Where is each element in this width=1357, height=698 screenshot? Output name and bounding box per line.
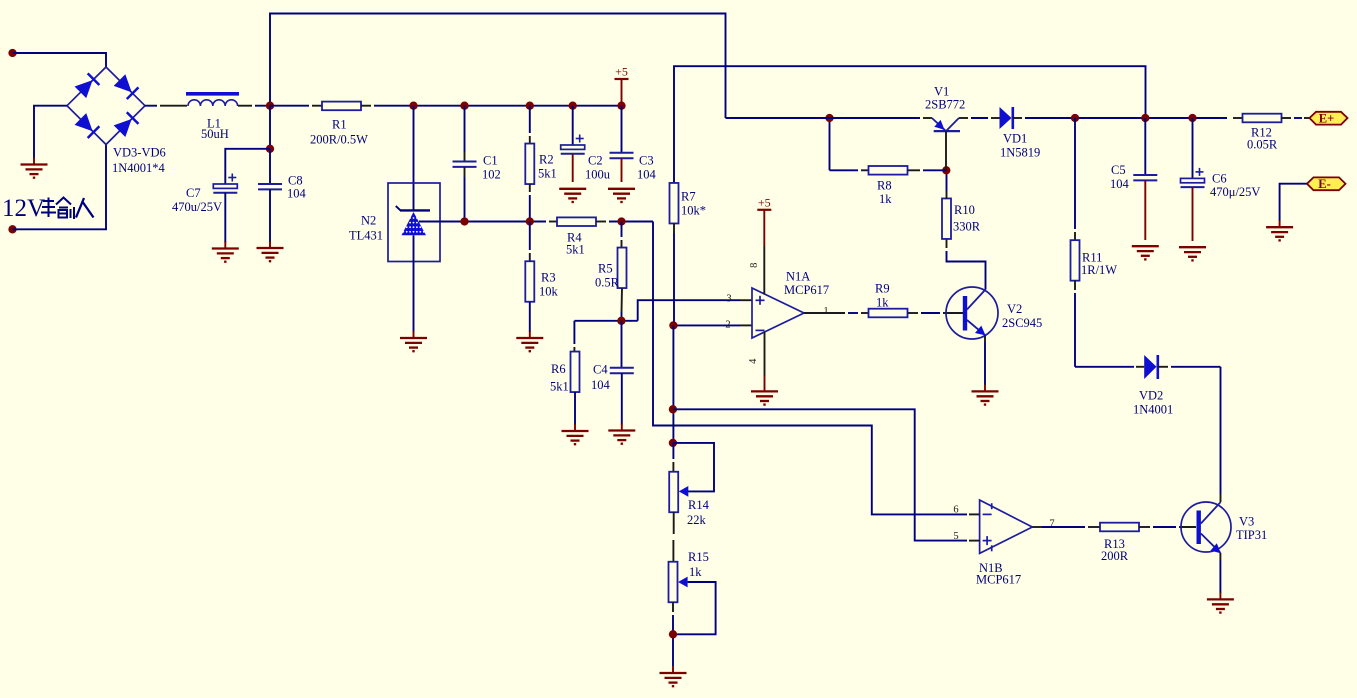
inductor L1 <box>186 92 239 96</box>
svg-text:R15: R15 <box>688 550 709 564</box>
svg-text:5k1: 5k1 <box>538 167 557 181</box>
wire input- to bridge bottom <box>13 145 107 230</box>
svg-text:MCP617: MCP617 <box>976 573 1021 587</box>
wire second top rail R7 to output rail <box>674 66 1146 183</box>
wire rail down to N2 cathode <box>413 106 415 210</box>
wire R1 to +5 rail <box>361 105 371 107</box>
junction rail at C2 <box>569 102 577 110</box>
junction main rail at L1 output <box>266 102 274 110</box>
op-amp N1B MCP617 <box>980 500 1033 553</box>
svg-text:R9: R9 <box>875 282 890 296</box>
wire VD1 to output rail <box>1013 117 1022 119</box>
ground at V3 <box>1219 592 1221 599</box>
node: 12V input positive terminal <box>8 49 16 57</box>
svg-text:1: 1 <box>823 306 828 317</box>
svg-text:104: 104 <box>1110 177 1130 191</box>
svg-text:1N5819: 1N5819 <box>1000 146 1040 160</box>
svg-text:R10: R10 <box>954 203 975 217</box>
svg-text:V1: V1 <box>934 85 949 99</box>
bridge diode bottom-right <box>114 112 139 137</box>
resistor R10 <box>942 198 951 239</box>
ground at C4 <box>621 424 623 431</box>
junction V1 emitter rail at R8 <box>825 114 833 122</box>
op-amp N1A MCP617 <box>752 288 804 338</box>
wire R12 to E+ port <box>1281 117 1291 119</box>
svg-text:R3: R3 <box>541 271 556 285</box>
junction R15 bottom / wiper <box>669 630 677 638</box>
capacitor C5 <box>1144 118 1146 175</box>
resistor R13 <box>1100 523 1139 532</box>
svg-text:1k: 1k <box>879 192 892 206</box>
svg-text:1R/1W: 1R/1W <box>1081 263 1117 277</box>
svg-text:C6: C6 <box>1212 172 1227 186</box>
bridge rectifier VD3-VD6 diamond <box>67 67 145 145</box>
svg-text:TL431: TL431 <box>349 229 383 243</box>
ground at C6 <box>1192 246 1194 248</box>
svg-text:2: 2 <box>725 320 730 331</box>
ground at V2 emitter <box>984 384 986 391</box>
ground at R3 <box>529 331 531 338</box>
junction output rail at C6 <box>1188 114 1196 122</box>
svg-text:4: 4 <box>748 358 759 364</box>
svg-text:1k: 1k <box>689 565 702 579</box>
svg-text:+5: +5 <box>615 65 628 79</box>
wire E- to ground <box>1280 184 1307 221</box>
resistor R8 <box>829 118 831 170</box>
wire input+ to bridge top <box>13 53 107 67</box>
node: 12V input negative terminal <box>8 225 16 233</box>
svg-text:C5: C5 <box>1111 163 1126 177</box>
wire R4 to R5 junction and down-corner <box>597 221 607 223</box>
svg-text:E-: E- <box>1318 177 1331 191</box>
svg-text:5k1: 5k1 <box>550 380 569 394</box>
junction V1 base / R8 / R10 <box>942 166 950 174</box>
transistor V1 2SB772 (PNP) <box>934 130 960 132</box>
capacitor C7 electrolytic <box>213 184 237 188</box>
svg-text:2SB772: 2SB772 <box>925 98 965 112</box>
bridge diode bottom-left <box>75 113 100 138</box>
svg-text:470u/25V: 470u/25V <box>172 200 222 214</box>
svg-text:8: 8 <box>749 263 760 268</box>
svg-text:104: 104 <box>637 168 657 182</box>
svg-text:104: 104 <box>591 378 611 392</box>
svg-text:50uH: 50uH <box>201 127 229 141</box>
port E- <box>1307 177 1346 190</box>
svg-text:VD1: VD1 <box>1003 132 1027 146</box>
wire C7 branch <box>225 149 270 184</box>
svg-text:470μ/25V: 470μ/25V <box>1210 185 1260 199</box>
ground at N1A pin 4 <box>764 375 766 391</box>
capacitor C1 <box>464 106 466 152</box>
ground at R6 <box>574 424 576 431</box>
ground at C3 <box>621 188 623 190</box>
svg-text:1N4001*4: 1N4001*4 <box>112 161 166 175</box>
svg-text:C2: C2 <box>588 154 603 168</box>
resistor R9 <box>869 309 908 318</box>
wire to op-amp pin 2 <box>673 324 740 326</box>
svg-text:2SC945: 2SC945 <box>1002 316 1042 330</box>
wire rail down to C7/C8 node <box>269 106 271 149</box>
svg-text:N1A: N1A <box>786 270 810 284</box>
svg-text:MCP617: MCP617 <box>784 283 829 297</box>
wire bridge right vertex to L1 <box>145 105 157 107</box>
junction ref rail at C1 bottom <box>460 217 468 225</box>
svg-text:VD2: VD2 <box>1139 389 1163 403</box>
svg-text:10k*: 10k* <box>681 203 706 217</box>
ground at R15 <box>672 666 674 673</box>
resistor R11 <box>1074 118 1076 229</box>
svg-text:200R: 200R <box>1101 549 1129 563</box>
svg-text:5k1: 5k1 <box>566 242 585 256</box>
wire bridge left vertex to ground <box>34 106 67 158</box>
junction output rail at C5 <box>1141 114 1149 122</box>
wire R13 to V3 base <box>1139 526 1150 528</box>
wire R11 bottom to VD2 <box>1075 366 1134 368</box>
transistor V2 2SC945 <box>946 287 998 339</box>
ground at C8 <box>269 241 271 248</box>
wire R7 line down to R14 <box>672 325 674 443</box>
wire rail to R1 <box>270 105 309 107</box>
ground at bridge minus <box>33 158 35 165</box>
op-amp pin 4 to ground <box>764 332 766 376</box>
wire to op-amp pin 3 <box>638 300 740 321</box>
svg-text:R5: R5 <box>598 262 613 276</box>
junction rail at C1 <box>460 102 468 110</box>
port E+ <box>1310 112 1348 125</box>
wire V3 emitter to ground <box>1219 553 1221 560</box>
bridge diode top-right <box>114 74 139 99</box>
wire top loop from rail to V1 emitter rail <box>270 14 726 119</box>
ground at N2 <box>413 331 415 338</box>
transistor V3 TIP31 <box>1181 502 1231 552</box>
svg-text:1N4001: 1N4001 <box>1133 403 1173 417</box>
svg-text:0.05R: 0.05R <box>1247 138 1278 152</box>
svg-text:V2: V2 <box>1007 302 1022 316</box>
svg-text:R7: R7 <box>681 190 696 204</box>
wire VD2 to V3 collector <box>1158 366 1168 368</box>
capacitor C2 electrolytic <box>572 106 574 145</box>
wire op-amp output pin1 to R9 <box>804 312 845 314</box>
diode VD1 1N5819 <box>1000 107 1012 129</box>
ground at C5 <box>1144 245 1146 247</box>
capacitor C4 <box>621 321 623 368</box>
capacitor C6 electrolytic <box>1192 118 1194 178</box>
wire L1 to rail junction <box>238 105 252 107</box>
svg-text:100u: 100u <box>585 168 611 182</box>
svg-text:330R: 330R <box>953 220 981 234</box>
svg-text:N2: N2 <box>361 214 376 228</box>
resistor R5 <box>621 222 623 238</box>
svg-text:VD3-VD6: VD3-VD6 <box>113 146 166 160</box>
resistor R3 <box>529 222 531 251</box>
ground at C7 <box>224 242 226 249</box>
svg-text:R2: R2 <box>539 153 554 167</box>
svg-text:200R/0.5W: 200R/0.5W <box>310 133 368 147</box>
svg-text:V3: V3 <box>1239 515 1254 529</box>
bridge diode top-left <box>75 73 100 98</box>
resistor R6 <box>573 321 575 344</box>
wire pin3 node horizontal <box>574 320 637 322</box>
wire R14 to R15 <box>673 512 675 535</box>
resistor R2 <box>529 106 531 133</box>
wire V1 emitter rail <box>726 117 921 119</box>
wire V2 collector to R10 <box>947 251 986 290</box>
diode VD2 1N4001 <box>1144 355 1156 379</box>
resistor R7 <box>670 183 679 224</box>
capacitor C3 <box>621 106 623 153</box>
svg-text:TIP31: TIP31 <box>1236 528 1267 542</box>
junction output rail at R11 <box>1071 114 1079 122</box>
junction at R14 top <box>669 439 677 447</box>
junction at R4 right / R5 top <box>617 217 625 225</box>
junction rail at N2 column <box>409 102 417 110</box>
wire V2 emitter to ground <box>984 335 986 342</box>
resistor R12 <box>1243 114 1282 123</box>
svg-text:R1: R1 <box>332 118 347 132</box>
potentiometer R15 1k <box>669 562 678 603</box>
junction at pin5 feedback tap <box>669 405 677 413</box>
svg-text:C8: C8 <box>288 174 303 188</box>
junction rail at C3 / +5 <box>617 102 625 110</box>
wire rail to R12 <box>1233 117 1243 119</box>
wire R9 to V2 base <box>908 312 918 314</box>
svg-text:102: 102 <box>482 168 501 182</box>
wire R15 wiper loop <box>673 582 716 634</box>
wire feedback to N1B pin 6 (from R4 corner) <box>653 222 967 515</box>
svg-text:R8: R8 <box>877 179 892 193</box>
svg-text:22k: 22k <box>687 513 707 527</box>
svg-text:C7: C7 <box>186 186 201 200</box>
svg-text:3: 3 <box>726 293 731 304</box>
wire V1 collector to VD1 <box>959 117 968 119</box>
resistor R1 <box>322 102 361 111</box>
ground at C2 <box>572 188 574 190</box>
junction R7 line at pin2 <box>669 321 677 329</box>
svg-text:C3: C3 <box>639 154 654 168</box>
svg-text:E+: E+ <box>1319 112 1334 126</box>
potentiometer R14 22k <box>672 443 674 459</box>
wire N2 ref rail to R4 <box>419 221 546 223</box>
wire N2 anode to ground <box>413 235 415 332</box>
ground at E- <box>1279 220 1281 227</box>
svg-text:+5: +5 <box>758 195 771 209</box>
resistor R4 <box>557 217 596 226</box>
capacitor C8 <box>269 149 271 184</box>
wire feedback to N1B pin 5 (from R7 line tap) <box>673 409 967 540</box>
wire R14 wiper loop <box>673 443 714 492</box>
junction rail at R2 <box>526 102 534 110</box>
shunt regulator N2 TL431 <box>388 183 440 262</box>
svg-text:104: 104 <box>287 187 307 201</box>
svg-text:R6: R6 <box>551 362 566 376</box>
svg-text:10k: 10k <box>539 285 559 299</box>
svg-text:1k: 1k <box>876 296 889 310</box>
junction at C7/C8 node <box>266 145 274 153</box>
wire R15 bottom to ground <box>672 602 674 612</box>
junction ref rail at R3 <box>526 217 534 225</box>
svg-text:R14: R14 <box>688 498 710 512</box>
svg-text:C1: C1 <box>483 154 498 168</box>
junction R5 bottom / divider node <box>617 317 625 325</box>
svg-text:0.5R: 0.5R <box>595 276 620 290</box>
svg-text:C4: C4 <box>593 363 608 377</box>
svg-text:12V: 12V <box>2 195 45 222</box>
wire N1B output pin7 to R13 <box>1032 526 1042 528</box>
